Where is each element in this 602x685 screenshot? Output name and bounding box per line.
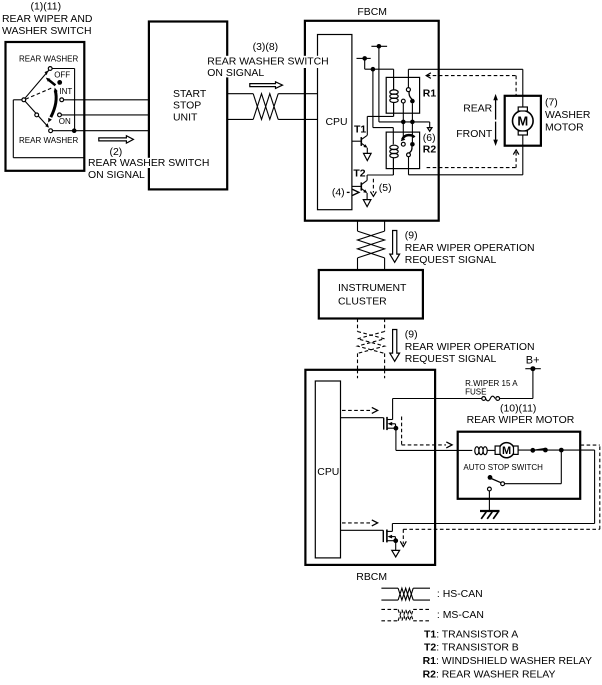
svg-text:START: START [173,89,207,100]
svg-text:RBCM: RBCM [356,572,387,583]
svg-text:(9): (9) [405,329,418,340]
svg-text:MOTOR: MOTOR [545,123,584,134]
svg-text:(10)(11): (10)(11) [500,404,536,415]
svg-text:R2: R2 [423,144,437,155]
svg-text:WASHER SWITCH: WASHER SWITCH [2,26,92,37]
svg-text:CLUSTER: CLUSTER [338,296,387,307]
svg-text:R2: REAR WASHER RELAY: R2: REAR WASHER RELAY [423,670,556,681]
svg-text:T2: TRANSISTOR B: T2: TRANSISTOR B [424,643,519,654]
svg-text:(7): (7) [545,98,558,109]
svg-text:FBCM: FBCM [357,7,387,18]
svg-text:(6): (6) [423,133,436,144]
svg-text:R1: WINDSHIELD WASHER RELAY: R1: WINDSHIELD WASHER RELAY [423,656,592,667]
svg-text:T2: T2 [353,169,365,180]
svg-text:REQUEST SIGNAL: REQUEST SIGNAL [405,354,497,365]
svg-text:REAR WIPER OPERATION: REAR WIPER OPERATION [405,342,535,353]
svg-text:: HS-CAN: : HS-CAN [437,589,483,600]
svg-text:(5): (5) [379,183,392,194]
svg-text:(9): (9) [405,230,418,241]
svg-text:T1: T1 [354,124,366,135]
svg-text:STOP: STOP [173,101,201,112]
svg-text:B+: B+ [526,355,540,367]
svg-text:AUTO STOP SWITCH: AUTO STOP SWITCH [463,463,543,472]
svg-text:REAR: REAR [463,104,492,115]
svg-text:REAR WASHER: REAR WASHER [19,55,78,64]
svg-text:T1: TRANSISTOR A: T1: TRANSISTOR A [424,630,518,641]
svg-text:REAR WIPER OPERATION: REAR WIPER OPERATION [405,243,535,254]
svg-text:REAR WIPER MOTOR: REAR WIPER MOTOR [467,415,575,426]
svg-text:REAR WASHER: REAR WASHER [19,136,78,145]
svg-text:ON: ON [59,117,71,126]
svg-text:INT: INT [59,87,72,96]
svg-text:REAR WIPER AND: REAR WIPER AND [2,14,93,25]
svg-text:M: M [517,114,528,129]
svg-text:OFF: OFF [54,71,70,80]
svg-text:UNIT: UNIT [173,112,198,123]
svg-text:FUSE: FUSE [465,387,486,396]
svg-text:(2): (2) [110,147,123,158]
svg-text:REAR WASHER SWITCH: REAR WASHER SWITCH [207,56,328,67]
svg-text:: MS-CAN: : MS-CAN [437,610,484,621]
svg-text:WASHER: WASHER [545,110,591,121]
svg-text:ON SIGNAL: ON SIGNAL [207,68,264,79]
svg-text:M: M [502,445,511,457]
svg-text:CPU: CPU [326,117,348,128]
svg-text:(3)(8): (3)(8) [253,42,279,53]
svg-text:CPU: CPU [317,467,339,478]
svg-text:INSTRUMENT: INSTRUMENT [338,283,407,294]
svg-text:(4): (4) [332,188,345,199]
svg-text:REQUEST SIGNAL: REQUEST SIGNAL [405,255,497,266]
svg-text:FRONT: FRONT [456,129,493,140]
svg-text:REAR WASHER SWITCH: REAR WASHER SWITCH [88,158,209,169]
svg-text:ON SIGNAL: ON SIGNAL [88,170,145,181]
svg-text:R1: R1 [423,89,437,100]
svg-text:(1)(11): (1)(11) [31,1,62,12]
